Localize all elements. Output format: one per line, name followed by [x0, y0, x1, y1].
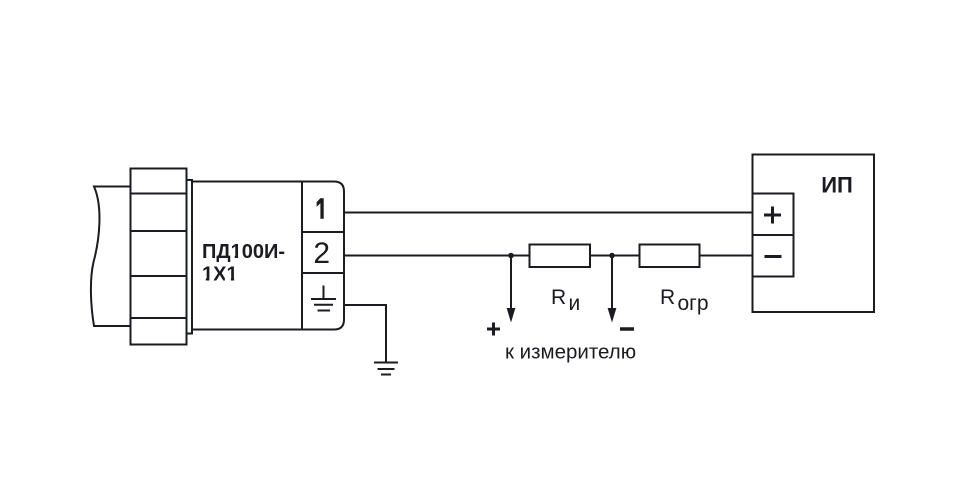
sensor label ПД100И-1Х1 — [200, 241, 285, 285]
wire: Rогр to ИП minus — [700, 255, 754, 257]
sensor hex nut — [131, 169, 187, 345]
value label Rогр — [660, 286, 709, 315]
svg-text:2: 2 — [313, 237, 330, 270]
arrow: node A down to meter plus — [507, 256, 516, 323]
terminal ground cell earth symbol — [311, 286, 336, 311]
sensor collar — [187, 180, 193, 334]
resistor Rогр — [640, 245, 700, 268]
node B (junction dot) — [609, 253, 615, 259]
svg-text:огр: огр — [678, 292, 709, 315]
ИП minus terminal box — [753, 235, 794, 277]
svg-text:к измерителю: к измерителю — [505, 340, 636, 363]
wire: Rи to node B — [590, 255, 640, 257]
wire: ground terminal to earth — [344, 305, 386, 363]
svg-text:и: и — [569, 292, 581, 315]
arrow: node B down to meter minus — [608, 256, 617, 323]
terminal 1 cell — [302, 231, 344, 233]
sensor body ПД100И-1Х1 — [192, 182, 344, 330]
device label ИП — [821, 173, 853, 198]
node A (junction dot) — [508, 253, 514, 259]
ИП plus terminal box — [753, 194, 794, 236]
wire: terminal 1 to ИП plus — [344, 212, 753, 214]
svg-text:ИП: ИП — [821, 173, 853, 198]
minus polarity label — [620, 327, 634, 331]
svg-text:R: R — [551, 286, 566, 309]
net label: к измерителю (to the meter) — [505, 340, 636, 363]
plus polarity label — [487, 323, 500, 336]
svg-text:R: R — [660, 286, 675, 309]
wire: terminal 2 to node A — [344, 255, 530, 257]
value label Rи — [551, 286, 580, 315]
terminal block column divider — [301, 182, 303, 330]
pin number 2 — [313, 237, 330, 270]
terminal 2 cell — [302, 272, 344, 274]
svg-text:1Х1: 1Х1 — [202, 263, 238, 285]
device ИП (measuring instrument) box — [753, 155, 875, 313]
earth ground symbol — [374, 363, 398, 375]
resistor Rи — [530, 245, 591, 268]
pin number 1 — [317, 198, 324, 219]
sensor process-connection break (pipe stub with break line) — [91, 187, 132, 327]
svg-text:ПД100И-: ПД100И- — [202, 241, 285, 263]
